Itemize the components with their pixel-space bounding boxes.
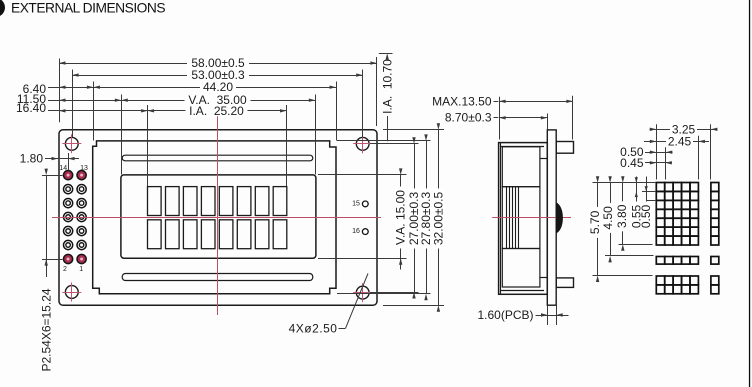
side view: bezel outline <box>499 143 548 295</box>
dimension 0.55 (dot pitch vert) <box>636 177 638 232</box>
side view red centerline <box>492 217 571 219</box>
svg-text:EXTERNAL DIMENSIONS: EXTERNAL DIMENSIONS <box>11 1 165 16</box>
side view: PCB <box>547 130 556 305</box>
side view: bottom connector tab <box>556 278 573 288</box>
red horizontal centerline of front view <box>52 217 381 219</box>
extension lines right of front view <box>318 174 407 176</box>
front view: metal bezel outline with stepped corners <box>93 141 336 294</box>
side view: bezel inner left line <box>500 143 502 293</box>
dimension 53.00±0.3 <box>72 75 363 77</box>
red vertical centerline of front view <box>217 116 219 316</box>
dot matrix detail: next line character rows <box>656 276 664 285</box>
side view: backlight bottom block <box>502 249 540 288</box>
dimension 16.40 / I.A. 25.20 chain <box>48 110 287 112</box>
dimension 3.80 <box>622 183 624 245</box>
dimension 58.00±0.5 <box>59 63 377 65</box>
dimension 32.00±0.5 (vertical) <box>438 130 440 306</box>
svg-text:V.A. 15.00: V.A. 15.00 <box>394 190 408 245</box>
svg-text:15: 15 <box>352 200 360 207</box>
dimension 11.50 / V.A. 35.00 chain <box>48 100 315 102</box>
dimension I.A. 10.70 (vertical, top right) <box>379 53 393 55</box>
side view: top connector tab <box>556 142 573 154</box>
dimension 2.45 (char width) <box>644 141 709 143</box>
svg-text:1: 1 <box>79 266 83 273</box>
right border line <box>749 0 750 387</box>
side view: bottom bridge to PCB <box>540 277 547 279</box>
dimension 27.00±0.3 (vertical) <box>414 144 416 292</box>
svg-text:16.40: 16.40 <box>16 101 46 115</box>
svg-text:1.60(PCB): 1.60(PCB) <box>477 308 533 322</box>
dimension 27.80±0.3 (vertical) <box>426 141 428 294</box>
dimension P2.54X6=15.24 (pin row span) <box>42 175 63 177</box>
side view: glass layers <box>502 187 540 249</box>
dot matrix detail: main 5x7 character <box>656 183 664 192</box>
V.A. display window <box>121 175 316 258</box>
svg-text:14: 14 <box>59 165 67 172</box>
svg-text:I.A. 10.70: I.A. 10.70 <box>381 59 395 114</box>
dot matrix detail: adjacent character column <box>711 183 719 192</box>
dimension 0.50 (dot height) <box>646 177 648 232</box>
svg-text:4Xø2.50: 4Xø2.50 <box>289 321 338 335</box>
svg-text:16: 16 <box>352 228 360 235</box>
dimension 4.50 (char height) <box>610 183 612 256</box>
side view: black bump on PCB back <box>556 202 563 233</box>
svg-text:3.80: 3.80 <box>615 204 629 228</box>
svg-text:2: 2 <box>63 266 67 273</box>
header bullet icon <box>0 0 5 17</box>
svg-text:5.70: 5.70 <box>588 210 602 234</box>
svg-text:8.70±0.3: 8.70±0.3 <box>445 111 492 125</box>
bezel top slot <box>122 155 313 161</box>
svg-text:2.45: 2.45 <box>668 134 692 148</box>
side view: bezel bottom lip <box>501 290 544 292</box>
mounting hole bottom-left <box>65 286 78 299</box>
svg-text:0.50: 0.50 <box>639 204 653 228</box>
svg-text:P2.54X6=15.24: P2.54X6=15.24 <box>40 288 54 371</box>
svg-text:MAX.13.50: MAX.13.50 <box>432 95 492 109</box>
matrix extension lines (top) <box>656 124 658 179</box>
dot matrix detail: cursor row <box>656 257 664 265</box>
front view: PCB outline <box>59 130 377 306</box>
svg-text:13: 13 <box>80 165 88 172</box>
bezel bottom slot <box>122 274 313 281</box>
mounting hole bottom-right <box>356 286 369 299</box>
side view: bezel top lip <box>501 146 544 148</box>
mounting hole top-left <box>65 137 78 150</box>
svg-text:4.50: 4.50 <box>601 206 615 230</box>
svg-text:0.45: 0.45 <box>620 156 644 170</box>
svg-text:I.A. 25.20: I.A. 25.20 <box>189 104 244 118</box>
side view: top bridge to PCB <box>540 158 547 160</box>
connector pins 2x7 grid <box>64 171 73 180</box>
extension lines above front view <box>59 59 61 123</box>
character cells 8x2 <box>148 187 162 216</box>
svg-text:32.00±0.5: 32.00±0.5 <box>431 192 445 246</box>
side view: LCD glass top block <box>502 147 540 187</box>
svg-text:1.80: 1.80 <box>20 152 44 166</box>
mounting hole top-right <box>356 137 369 150</box>
backlight pins 15 16 <box>362 201 368 207</box>
matrix extension ticks (left) <box>593 182 656 184</box>
dimension 5.70 (char pitch vert) <box>597 183 599 276</box>
svg-text:44.20: 44.20 <box>203 80 233 94</box>
dimension 3.25 (char pitch) <box>650 129 718 131</box>
dimension V.A. 15.00 (vertical) <box>400 175 402 270</box>
dimension 6.40 / 44.20 chain <box>48 87 336 89</box>
